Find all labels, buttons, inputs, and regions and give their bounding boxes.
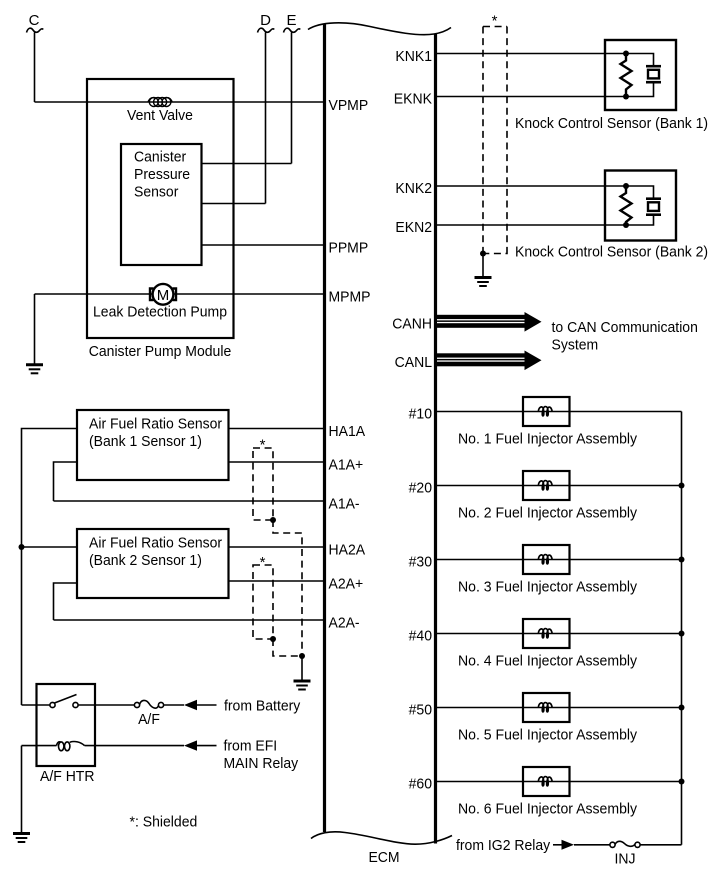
svg-text:HA1A: HA1A <box>329 423 366 440</box>
wire EKNK <box>436 96 627 98</box>
solenoid coil vent valve <box>148 98 172 107</box>
wire left down to ground from MPMP <box>34 294 36 364</box>
junction dot bus #40 <box>679 631 685 637</box>
heater coil A/F HTR <box>57 742 85 751</box>
svg-text:from Battery: from Battery <box>224 698 301 715</box>
wire PPMP horizontal <box>202 244 325 246</box>
svg-text:Vent Valve: Vent Valve <box>127 107 193 124</box>
canister pressure sensor box <box>121 144 202 265</box>
injector 5 box <box>523 693 570 722</box>
wire heater to ground <box>21 746 23 833</box>
junction dot shield S2 <box>270 636 276 642</box>
wire arrow tail battery <box>197 704 217 706</box>
svg-text:No. 1 Fuel Injector Assembly: No. 1 Fuel Injector Assembly <box>458 431 638 448</box>
piezo element KS1 <box>626 54 661 97</box>
svg-text:No. 6 Fuel Injector Assembly: No. 6 Fuel Injector Assembly <box>458 801 638 818</box>
injector 3 coil <box>538 555 552 564</box>
svg-text:Canister: Canister <box>134 149 186 166</box>
junction dot shield common <box>299 653 305 659</box>
junction dot shield S1 <box>270 517 276 523</box>
svg-text:No. 5 Fuel Injector Assembly: No. 5 Fuel Injector Assembly <box>458 727 638 744</box>
svg-text:A2A-: A2A- <box>329 615 360 632</box>
ground symbol G4 <box>475 278 492 287</box>
switch arm <box>55 695 77 704</box>
ECM top break wave <box>308 23 451 35</box>
motor M leak detection pump <box>150 284 176 305</box>
injector 3 box <box>523 545 570 574</box>
node dot bottom KS2 <box>623 222 629 228</box>
svg-text:#40: #40 <box>409 628 432 645</box>
svg-text:Air Fuel Ratio Sensor: Air Fuel Ratio Sensor <box>89 416 222 433</box>
svg-text:M: M <box>157 287 170 304</box>
injector supply bus vertical <box>681 412 683 845</box>
CAN bus arrow CANL <box>437 351 542 371</box>
svg-text:MAIN Relay: MAIN Relay <box>224 755 299 772</box>
knock control sensor bank2 box <box>605 171 676 241</box>
node dot top KS1 <box>623 51 629 57</box>
svg-text:No. 4 Fuel Injector Assembly: No. 4 Fuel Injector Assembly <box>458 653 638 670</box>
injector 1 box <box>523 397 570 426</box>
ground symbol G2 <box>294 681 311 690</box>
wire heater row <box>22 745 57 747</box>
injector 4 coil <box>538 629 552 638</box>
svg-text:Knock Control Sensor (Bank 2): Knock Control Sensor (Bank 2) <box>515 244 708 261</box>
wire KNK1 <box>436 53 627 55</box>
ground symbol G1 <box>26 365 43 374</box>
svg-text:PPMP: PPMP <box>329 240 369 257</box>
arrowhead from battery <box>184 700 197 710</box>
svg-text:to CAN Communication: to CAN Communication <box>552 319 698 336</box>
wire EKN2 <box>436 224 627 226</box>
ground symbol G3 <box>13 834 30 843</box>
fuse INJ <box>610 841 640 847</box>
resistor KS1 <box>621 54 632 97</box>
svg-text:from IG2 Relay: from IG2 Relay <box>456 837 551 854</box>
wire A1A- riser <box>54 462 78 501</box>
wire #60 <box>436 781 682 783</box>
connector D break squiggle <box>258 28 275 32</box>
svg-text:MPMP: MPMP <box>329 289 371 306</box>
svg-text:CANL: CANL <box>395 354 432 371</box>
wire VPMP horizontal <box>35 101 325 103</box>
svg-text:No. 2 Fuel Injector Assembly: No. 2 Fuel Injector Assembly <box>458 505 638 522</box>
svg-text:*: * <box>260 554 266 571</box>
svg-text:D: D <box>260 12 271 29</box>
junction dot bus #60 <box>679 779 685 785</box>
air fuel ratio sensor bank2 box <box>77 529 229 598</box>
svg-text:Air Fuel Ratio Sensor: Air Fuel Ratio Sensor <box>89 535 222 552</box>
svg-text:from EFI: from EFI <box>224 738 278 755</box>
wire knock shield ground drop <box>482 254 484 277</box>
ECM bottom break wave <box>311 832 452 844</box>
piezo element KS2 <box>626 186 661 225</box>
wire IG2 to fuse <box>574 844 610 846</box>
injector 2 coil <box>538 481 552 490</box>
arrowhead IG2 <box>553 844 562 846</box>
ECM left boundary line <box>323 24 326 832</box>
wire HA2A <box>229 546 325 548</box>
junction dot knock shield <box>480 251 486 257</box>
knock shield dashed top edge <box>483 26 507 28</box>
svg-text:No. 3 Fuel Injector Assembly: No. 3 Fuel Injector Assembly <box>458 579 638 596</box>
wire A2A+ <box>229 580 325 582</box>
wire sensor to D <box>202 203 266 205</box>
svg-text:A/F HTR: A/F HTR <box>40 768 95 785</box>
wire heater bus left vertical <box>22 429 78 706</box>
junction dot bus #20 <box>679 483 685 489</box>
wire HA1A <box>229 428 325 430</box>
air fuel ratio sensor bank1 box <box>77 410 229 480</box>
svg-text:EKN2: EKN2 <box>395 219 432 236</box>
injector 4 box <box>523 619 570 648</box>
switch contacts <box>50 702 55 707</box>
wire A2A- riser <box>54 583 78 620</box>
wire A2A- horizontal <box>54 619 325 621</box>
shield S2 dashed route <box>273 639 302 656</box>
svg-text:ECM: ECM <box>368 849 399 866</box>
svg-text:A2A+: A2A+ <box>329 576 364 593</box>
wire #20 <box>436 485 682 487</box>
arrowhead from EFI <box>184 740 197 750</box>
wire shield ground drop <box>301 656 303 680</box>
knock shield dashed left vertical <box>482 27 484 254</box>
wire switch row left <box>22 704 51 706</box>
junction dot bus #50 <box>679 705 685 711</box>
svg-text:A1A-: A1A- <box>329 496 360 513</box>
svg-text:Pressure: Pressure <box>134 166 190 183</box>
junction node heater bus <box>19 544 25 550</box>
svg-text:VPMP: VPMP <box>329 97 369 114</box>
svg-text:*: * <box>492 13 498 30</box>
injector 6 coil <box>538 777 552 786</box>
wire arrow tail EFI <box>197 745 217 747</box>
svg-text:#60: #60 <box>409 776 432 793</box>
shield S1 dashed box <box>253 448 273 520</box>
svg-text:A1A+: A1A+ <box>329 457 364 474</box>
injector 1 coil <box>538 407 552 416</box>
wire KNK2 <box>436 185 627 187</box>
shield S1 dashed route to ground <box>273 520 302 656</box>
fuse A/F <box>134 700 163 708</box>
wire switch row right <box>78 704 134 706</box>
wire #30 <box>436 559 682 561</box>
svg-text:*: Shielded: *: Shielded <box>130 814 198 831</box>
canister pump module box <box>87 79 234 338</box>
wire C vertical <box>34 33 36 103</box>
svg-text:Sensor: Sensor <box>134 184 178 201</box>
wire HA2A left stub <box>22 546 78 548</box>
wire D vertical <box>265 33 267 204</box>
svg-text:#30: #30 <box>409 554 432 571</box>
node dot top KS2 <box>623 183 629 189</box>
svg-text:EKNK: EKNK <box>394 91 432 108</box>
injector 6 box <box>523 767 570 796</box>
knock control sensor bank1 box <box>605 40 676 110</box>
svg-text:#10: #10 <box>409 406 432 423</box>
injector 5 coil <box>538 703 552 712</box>
svg-text:(Bank 2 Sensor 1): (Bank 2 Sensor 1) <box>89 552 202 569</box>
svg-text:C: C <box>29 12 40 29</box>
relay A/F HTR box <box>37 684 96 766</box>
CAN bus arrow CANH <box>437 312 542 332</box>
wire A1A+ <box>229 461 325 463</box>
wire E vertical <box>291 33 293 164</box>
resistor KS2 <box>621 186 632 225</box>
svg-text:A/F: A/F <box>138 711 160 728</box>
connector C break squiggle <box>27 28 44 32</box>
wire INJ fuse to bus <box>640 844 681 846</box>
knock shield dashed right vertical <box>506 27 508 249</box>
wire #10 <box>436 411 682 413</box>
svg-text:KNK2: KNK2 <box>395 180 432 197</box>
svg-text:INJ: INJ <box>615 851 636 868</box>
svg-text:Leak Detection Pump: Leak Detection Pump <box>93 304 227 321</box>
svg-text:#20: #20 <box>409 480 432 497</box>
svg-text:System: System <box>552 337 599 354</box>
svg-text:*: * <box>260 437 266 454</box>
ECM right boundary line <box>434 34 437 844</box>
svg-text:CANH: CANH <box>392 316 432 333</box>
connector E break squiggle <box>284 28 301 32</box>
junction dot bus #30 <box>679 557 685 563</box>
svg-text:HA2A: HA2A <box>329 542 366 559</box>
svg-text:KNK1: KNK1 <box>395 48 432 65</box>
wire #50 <box>436 707 682 709</box>
node dot bottom KS1 <box>623 94 629 100</box>
svg-text:#50: #50 <box>409 702 432 719</box>
wire fuse to arrow <box>164 704 184 706</box>
shield S2 dashed box <box>253 565 273 639</box>
wire #40 <box>436 633 682 635</box>
wire sensor to E <box>202 163 292 165</box>
svg-text:Canister Pump Module: Canister Pump Module <box>89 343 232 360</box>
svg-text:(Bank 1 Sensor 1): (Bank 1 Sensor 1) <box>89 433 202 450</box>
wire MPMP horizontal <box>35 293 325 295</box>
svg-text:Knock Control Sensor (Bank 1): Knock Control Sensor (Bank 1) <box>515 115 708 132</box>
wire A1A- horizontal <box>54 500 325 502</box>
svg-text:E: E <box>286 12 296 29</box>
injector 2 box <box>523 471 570 500</box>
knock shield dashed bottom hook <box>483 248 507 254</box>
